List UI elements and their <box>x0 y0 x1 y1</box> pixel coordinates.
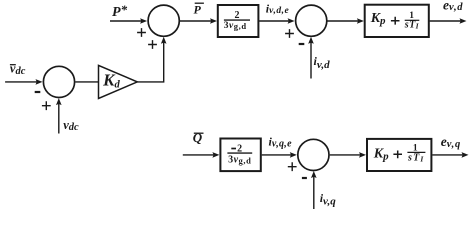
svg-text:Q: Q <box>193 130 203 145</box>
svg-text:sTI: sTI <box>404 20 420 31</box>
svg-text:ev,d: ev,d <box>443 0 463 13</box>
svg-text:2: 2 <box>235 10 240 21</box>
svg-text:3vg,d: 3vg,d <box>228 155 251 166</box>
svg-text:P: P <box>194 2 202 16</box>
svg-text:3vg,d: 3vg,d <box>224 21 247 31</box>
svg-text:sTI: sTI <box>407 152 425 163</box>
